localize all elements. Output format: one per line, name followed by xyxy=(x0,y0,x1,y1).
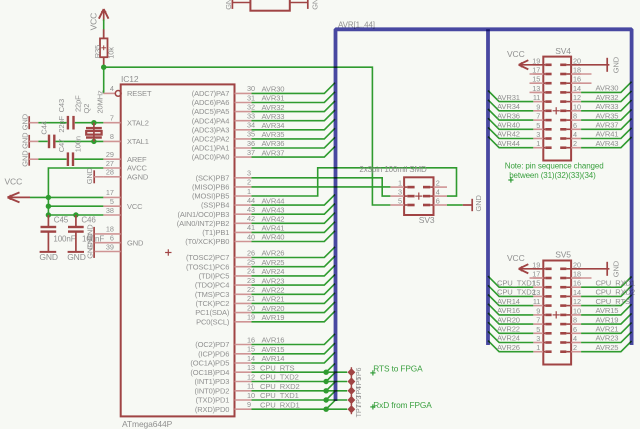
svg-text:AVR22: AVR22 xyxy=(262,286,285,295)
svg-text:CPU_TXD1: CPU_TXD1 xyxy=(497,278,536,287)
svg-text:4: 4 xyxy=(110,84,114,93)
testpoint TP6 xyxy=(348,367,356,377)
wire AVR41 xyxy=(252,222,336,233)
SV3 pin 1 xyxy=(390,179,414,188)
svg-text:7: 7 xyxy=(110,114,114,123)
label CPU_TXD1 at SV5 xyxy=(497,278,536,287)
label AVR33 at SV4 xyxy=(596,102,619,111)
wire AVR26 from bus xyxy=(488,341,533,352)
junction VCC pin5 xyxy=(46,204,51,209)
svg-text:GND: GND xyxy=(20,150,29,167)
svg-text:3: 3 xyxy=(247,169,251,178)
svg-text:(TXD)PD1: (TXD)PD1 xyxy=(196,396,230,405)
svg-text:AVR25: AVR25 xyxy=(262,258,285,267)
svg-text:(ADC6)PA6: (ADC6)PA6 xyxy=(192,98,230,107)
junction RESET at R35 xyxy=(101,65,106,70)
IC12 pin name (TXD)PD1 xyxy=(196,396,230,405)
SV5 pin 17 stub wire xyxy=(530,277,544,279)
SV5 pin 20 xyxy=(560,260,581,269)
wire AVR36 from bus xyxy=(488,109,533,120)
svg-text:(INT1)PD3: (INT1)PD3 xyxy=(195,377,230,386)
label AVR21 xyxy=(262,295,285,304)
IC12 pin 10 lead xyxy=(235,391,255,400)
IC12 pin name AVCC xyxy=(127,164,148,173)
svg-text:14: 14 xyxy=(247,354,255,363)
svg-text:AVR21: AVR21 xyxy=(596,325,619,334)
wire AVR23 to right bus xyxy=(581,332,632,343)
svg-text:(AIN1/OC0)PB3: (AIN1/OC0)PB3 xyxy=(178,210,230,219)
SV5 pin 17 xyxy=(532,270,551,279)
wire RESET net (R35 to IC and to SV3 pin5) xyxy=(104,67,391,205)
svg-text:AVR20: AVR20 xyxy=(262,304,285,313)
wire AVR26 xyxy=(252,247,336,258)
svg-text:GND: GND xyxy=(311,0,320,10)
value 20MHz of Q2 xyxy=(95,90,104,114)
wire VCC net to pin 17 xyxy=(30,196,103,198)
IC12 pin 18 lead xyxy=(95,225,121,234)
label AVR15 at SV5 xyxy=(596,306,619,315)
IC12 pin name (ADC5)PA5 xyxy=(192,107,230,116)
junction CPU_TXD2 xyxy=(323,379,328,384)
wire CPU_TXD1 from bus xyxy=(488,276,533,287)
svg-text:between (31)(32)(33)(34): between (31)(32)(33)(34) xyxy=(509,171,596,180)
label AVR34 at SV4 xyxy=(497,102,520,111)
wire AVR22 xyxy=(252,284,336,295)
svg-text:(RXD)PD0: (RXD)PD0 xyxy=(195,405,229,414)
svg-text:Note: pin sequence changed: Note: pin sequence changed xyxy=(505,162,604,171)
svg-text:4: 4 xyxy=(436,188,440,197)
IC12 pin name AGND xyxy=(127,172,149,181)
SV4 pin 11 xyxy=(533,93,552,102)
IC12 pin 14 lead xyxy=(235,354,255,363)
svg-text:(MISO)PB6: (MISO)PB6 xyxy=(192,183,229,192)
svg-text:AVR36: AVR36 xyxy=(262,139,285,148)
wire CPU_TXD2 xyxy=(252,373,348,382)
ground for C47 xyxy=(20,150,38,167)
svg-text:7: 7 xyxy=(536,316,540,325)
svg-text:CPU_TXD1: CPU_TXD1 xyxy=(260,391,299,400)
SV5 pin 8 xyxy=(560,316,581,325)
wire AVCC net xyxy=(48,168,103,197)
wire MISO net (IC pin2 to SV3 pin1) xyxy=(252,186,391,188)
label AVR20 at SV5 xyxy=(497,315,520,324)
svg-text:16: 16 xyxy=(573,75,581,84)
wire AVR14 xyxy=(252,352,336,363)
svg-text:(TOSC2)PC7: (TOSC2)PC7 xyxy=(186,253,229,262)
label AVR25 at SV5 xyxy=(596,343,619,352)
svg-text:18: 18 xyxy=(573,270,581,279)
wire AVR42 from bus xyxy=(488,127,533,138)
label C44 xyxy=(40,121,49,134)
annotation RTS to FPGA xyxy=(370,364,423,376)
IC12 pin 15 lead xyxy=(235,345,255,354)
label AVR32 at SV4 xyxy=(596,93,619,102)
svg-text:1: 1 xyxy=(536,343,540,352)
svg-text:(TCK)PC2: (TCK)PC2 xyxy=(196,299,230,308)
ground for C44 xyxy=(20,132,38,149)
svg-text:RESET: RESET xyxy=(127,89,152,98)
wire XTAL2 net xyxy=(38,122,103,124)
label SV5 xyxy=(555,250,571,260)
IC12 pin 13 lead xyxy=(235,363,255,372)
svg-text:AVR31: AVR31 xyxy=(497,93,520,102)
svg-text:AVR26: AVR26 xyxy=(497,343,520,352)
svg-text:SV4: SV4 xyxy=(555,46,571,56)
bus AVR[1..44] main U (left vertical, top horizontal, right vertical) xyxy=(336,29,632,401)
svg-text:AVR16: AVR16 xyxy=(262,336,285,345)
IC12 pin 36 lead xyxy=(235,139,255,148)
SV4 pin 17 stub wire xyxy=(530,73,544,75)
svg-text:VCC: VCC xyxy=(507,49,525,59)
IC12 pin 40 lead xyxy=(235,232,255,241)
ground IC GND pins 18/6/39 xyxy=(85,224,94,259)
svg-text:19: 19 xyxy=(247,313,255,322)
label AVR36 at SV4 xyxy=(497,111,520,120)
IC12 pin 8 lead xyxy=(103,132,120,141)
svg-text:(AIN0/INT2)PB2: (AIN0/INT2)PB2 xyxy=(177,219,230,228)
IC12 pin 20 lead xyxy=(235,303,255,312)
SV5 pin 10 xyxy=(560,306,581,315)
svg-text:AVR25: AVR25 xyxy=(596,343,619,352)
wire AVR34 from bus xyxy=(488,100,533,111)
label IC12 xyxy=(121,74,139,84)
svg-text:3: 3 xyxy=(536,130,540,139)
label AVR44 xyxy=(262,196,285,205)
note text about pin sequence xyxy=(505,162,604,183)
svg-text:11: 11 xyxy=(533,93,540,102)
svg-text:10: 10 xyxy=(247,391,255,400)
SV5 pin 4 xyxy=(560,334,581,343)
testpoint TP3 xyxy=(348,395,356,405)
svg-text:11: 11 xyxy=(533,297,540,306)
IC12 pin name VCC xyxy=(127,202,143,211)
IC12 pin 28 lead xyxy=(103,168,120,177)
wire AVR44 xyxy=(252,194,336,205)
svg-text:2: 2 xyxy=(573,343,577,352)
svg-text:AVR22: AVR22 xyxy=(497,325,520,334)
svg-text:38: 38 xyxy=(106,206,114,215)
svg-text:VCC: VCC xyxy=(127,202,143,211)
wire AVR37 xyxy=(252,146,336,157)
svg-text:C46: C46 xyxy=(81,215,96,224)
SV4 origin cross xyxy=(553,107,560,114)
IC12 pin name (TCK)PC2 xyxy=(196,299,230,308)
svg-text:VCC: VCC xyxy=(5,177,23,187)
IC12 pin name (AIN1/OC0)PB3 xyxy=(178,210,230,219)
label CPU_RXD1 xyxy=(260,400,300,409)
svg-text:ATmega644P: ATmega644P xyxy=(122,419,173,429)
svg-text:4: 4 xyxy=(573,130,577,139)
SV3 pin 6 xyxy=(423,196,447,205)
IC12 pin name (ADC2)PA2 xyxy=(192,135,230,144)
label CPU_TXD2 at SV5 xyxy=(497,288,536,297)
svg-text:20: 20 xyxy=(247,303,255,312)
svg-text:TP7: TP7 xyxy=(354,404,363,417)
svg-text:GND: GND xyxy=(127,238,144,247)
svg-text:20MHz: 20MHz xyxy=(95,90,104,114)
svg-text:GND: GND xyxy=(85,242,94,259)
wire AVR42 xyxy=(252,213,336,224)
label AVR26 at SV5 xyxy=(497,343,520,352)
svg-text:GND: GND xyxy=(20,132,29,149)
capacitor C43 22pF xyxy=(68,116,74,130)
label AVR31 at SV4 xyxy=(497,93,520,102)
junction CPU_RXD2 xyxy=(323,388,328,393)
svg-text:22: 22 xyxy=(247,285,255,294)
svg-text:28: 28 xyxy=(106,168,114,177)
label AVR33 xyxy=(262,112,285,121)
IC12 pin 35 lead xyxy=(235,130,255,139)
IC12 pin name (ADC6)PA6 xyxy=(192,98,230,107)
SV3 origin cross xyxy=(415,193,422,200)
SV4 pin 3 xyxy=(533,130,551,139)
svg-text:AVR33: AVR33 xyxy=(262,112,285,121)
svg-text:16: 16 xyxy=(573,279,581,288)
svg-text:SV3: SV3 xyxy=(419,215,435,225)
svg-text:CPU_TXD2: CPU_TXD2 xyxy=(497,288,536,297)
connector SV4 body xyxy=(543,57,571,161)
label SV4 xyxy=(555,46,571,56)
wire VCC to R35 xyxy=(103,20,105,39)
wire AVR14 from bus xyxy=(488,295,533,306)
capacitor C44 22pF xyxy=(49,135,54,149)
label AVR23 at SV5 xyxy=(596,334,619,343)
ground below C46 xyxy=(67,252,86,262)
svg-text:AVR44: AVR44 xyxy=(262,196,285,205)
wire AVR20 from bus xyxy=(488,313,533,324)
svg-text:AVR20: AVR20 xyxy=(497,315,520,324)
svg-text:AVR43: AVR43 xyxy=(262,205,285,214)
IC12 pin name (INT1)PD3 xyxy=(195,377,230,386)
SV5 pin 9 xyxy=(533,306,551,315)
label AVR35 at SV4 xyxy=(596,111,619,120)
IC12 pin 41 lead xyxy=(235,223,255,232)
junction VCC at C46 xyxy=(73,212,78,217)
SV3 pin 5 xyxy=(390,196,414,205)
label AVR41 xyxy=(262,224,285,233)
label TP7 xyxy=(354,404,363,417)
IC12 pin 30 lead xyxy=(235,84,255,93)
svg-text:10: 10 xyxy=(573,102,581,111)
testpoint TP4 xyxy=(348,386,356,396)
wire AVR19 xyxy=(252,311,336,322)
junction XTAL1 at crystal xyxy=(91,139,96,144)
svg-text:9: 9 xyxy=(536,102,540,111)
wire AVR37 to right bus xyxy=(581,119,632,130)
svg-text:18: 18 xyxy=(573,66,581,75)
IC12 pin name (ICP)PD6 xyxy=(198,349,229,358)
junction VCC pin17 xyxy=(46,195,51,200)
IC12 pin name (OC1B)PD4 xyxy=(190,368,229,377)
svg-text:(TDO)PC4: (TDO)PC4 xyxy=(195,281,229,290)
SV4 pin 6 xyxy=(560,121,581,130)
label Q2 xyxy=(82,104,91,114)
junction CPU_RTS xyxy=(323,370,328,375)
label CPU_RXD2 at SV5 xyxy=(596,288,636,297)
IC12 pin 4 lead xyxy=(103,84,121,96)
wire AVR30 xyxy=(252,83,336,94)
svg-text:15: 15 xyxy=(532,75,540,84)
svg-text:AVR37: AVR37 xyxy=(596,121,619,130)
IC12 pin 42 lead xyxy=(235,214,255,223)
label AVR14 at SV5 xyxy=(497,297,520,306)
svg-text:CPU_TXD2: CPU_TXD2 xyxy=(260,373,299,382)
svg-text:CPU_RXD1: CPU_RXD1 xyxy=(596,278,636,287)
IC12 pin 39 lead xyxy=(95,242,121,251)
svg-text:GND: GND xyxy=(612,260,621,277)
label SV3 xyxy=(419,215,435,225)
svg-text:41: 41 xyxy=(247,223,255,232)
IC12 pin 43 lead xyxy=(235,205,255,214)
wire AVR35 to right bus xyxy=(581,109,632,120)
svg-text:GND: GND xyxy=(612,56,621,73)
label AVR19 at SV5 xyxy=(596,315,619,324)
wire AVR16 xyxy=(252,334,336,345)
label AVR43 at SV4 xyxy=(596,139,619,148)
IC12 pin name (TOSC1)PC6 xyxy=(186,262,229,271)
wire AVR25 xyxy=(252,256,336,267)
svg-text:29: 29 xyxy=(106,150,114,159)
label AVR14 xyxy=(262,354,285,363)
svg-text:2: 2 xyxy=(573,139,577,148)
svg-text:16: 16 xyxy=(247,335,255,344)
IC12 pin name (ADC0)PA0 xyxy=(192,153,230,162)
SV4 pin 15 xyxy=(532,75,551,84)
SV5 pin 16 xyxy=(560,279,581,288)
label AVR19 xyxy=(262,313,285,322)
IC12 pin 9 lead xyxy=(235,400,252,409)
svg-text:(ADC4)PA4: (ADC4)PA4 xyxy=(192,116,230,125)
svg-text:(ADC5)PA5: (ADC5)PA5 xyxy=(192,107,230,116)
IC12 pin 38 lead xyxy=(103,206,120,215)
junction CPU_RXD1 xyxy=(323,407,328,412)
ground below C45 xyxy=(39,252,58,262)
svg-text:(OC1A)PD5: (OC1A)PD5 xyxy=(190,359,229,368)
wire AVR15 to right bus xyxy=(581,304,632,315)
SV4 pin 19 xyxy=(532,56,551,65)
IC12 pin 7 lead xyxy=(103,114,120,123)
svg-text:2: 2 xyxy=(247,178,251,187)
svg-text:(OC2)PD7: (OC2)PD7 xyxy=(195,340,229,349)
label AVR16 xyxy=(262,336,285,345)
svg-text:6: 6 xyxy=(573,121,577,130)
wire CPU_RXD2 xyxy=(252,382,348,391)
svg-text:3: 3 xyxy=(536,334,540,343)
label CPU_RXD2 xyxy=(260,382,300,391)
IC12 pin 31 lead xyxy=(235,93,255,102)
svg-text:12: 12 xyxy=(247,372,255,381)
svg-text:31: 31 xyxy=(247,93,255,102)
wire AVR40 from bus xyxy=(488,118,533,129)
SV5 pin 5 xyxy=(533,325,551,334)
svg-text:36: 36 xyxy=(247,139,255,148)
IC12 pin name (OC2)PD7 xyxy=(195,340,229,349)
SV4 pin 12 xyxy=(560,93,581,102)
svg-text:5: 5 xyxy=(110,197,114,206)
wire AVR20 xyxy=(252,302,336,313)
wire AVR24 xyxy=(252,265,336,276)
wire AVR15 xyxy=(252,343,336,354)
microcontroller IC12 ATmega644P body xyxy=(121,84,235,416)
svg-text:AVR24: AVR24 xyxy=(497,334,520,343)
value 22pF of C43 xyxy=(74,95,83,112)
wire CPU_RTS xyxy=(252,363,348,372)
svg-text:10: 10 xyxy=(573,306,581,315)
svg-text:(T1)PB1: (T1)PB1 xyxy=(202,228,229,237)
value 100n of C47 xyxy=(74,136,83,152)
svg-text:PC0(SCL): PC0(SCL) xyxy=(196,317,230,326)
IC12 origin cross xyxy=(165,249,171,255)
supply VCC at SV5 xyxy=(507,253,543,274)
value ATmega644P xyxy=(122,419,173,429)
svg-text:C47: C47 xyxy=(57,139,66,152)
IC12 pin 34 lead xyxy=(235,121,255,130)
IC12 pin 19 lead xyxy=(235,313,255,322)
SV5 pin 7 xyxy=(533,316,551,325)
label CPU_RXD1 at SV5 xyxy=(596,278,636,287)
svg-text:(T0/XCK)PB0: (T0/XCK)PB0 xyxy=(185,237,229,246)
svg-text:AVR33: AVR33 xyxy=(596,102,619,111)
label TP6 xyxy=(354,367,363,380)
label AVR25 xyxy=(262,258,285,267)
value 100nF of C45 xyxy=(53,234,75,243)
IC12 pin name (OC1A)PD5 xyxy=(190,359,229,368)
SV5 pin 15 xyxy=(532,279,551,288)
IC12 pin 44 lead xyxy=(235,196,255,205)
IC12 pin 22 lead xyxy=(235,285,255,294)
label AVR21 at SV5 xyxy=(596,325,619,334)
svg-text:10k: 10k xyxy=(107,47,116,59)
svg-text:AVR24: AVR24 xyxy=(262,267,285,276)
IC12 pin name (MISO)PB6 xyxy=(192,183,229,192)
SV5 pin 18 stub wire xyxy=(571,277,591,279)
svg-text:(SS)PB4: (SS)PB4 xyxy=(201,201,229,210)
IC12 pin name (ADC1)PA1 xyxy=(192,144,230,153)
svg-text:22pF: 22pF xyxy=(57,115,66,132)
label TP3 xyxy=(354,395,363,408)
SV5 pin 6 xyxy=(560,325,581,334)
wire to right GND xyxy=(290,2,308,4)
svg-text:6: 6 xyxy=(436,196,440,205)
SV3 pin 4 xyxy=(423,188,447,197)
IC12 pin name PC1(SDA) xyxy=(195,308,230,317)
SV5 origin cross xyxy=(553,311,560,318)
IC12 pin name (SS)PB4 xyxy=(201,201,229,210)
svg-text:AVR14: AVR14 xyxy=(262,354,285,363)
svg-text:GND: GND xyxy=(474,194,483,211)
label CPU_RTS at SV5 xyxy=(596,297,631,306)
svg-text:GND: GND xyxy=(20,113,29,130)
IC12 pin 11 lead xyxy=(235,382,255,391)
svg-text:30: 30 xyxy=(247,84,255,93)
ground left of top resistor xyxy=(224,0,233,10)
svg-text:GND: GND xyxy=(224,0,233,10)
svg-text:42: 42 xyxy=(247,214,255,223)
svg-text:XTAL1: XTAL1 xyxy=(127,137,149,146)
svg-text:PC1(SDA): PC1(SDA) xyxy=(195,308,230,317)
svg-text:37: 37 xyxy=(247,148,255,157)
IC12 pin name AREF xyxy=(127,155,147,164)
svg-text:(ADC0)PA0: (ADC0)PA0 xyxy=(192,153,230,162)
svg-text:GND: GND xyxy=(67,252,86,262)
svg-text:4: 4 xyxy=(573,334,577,343)
wire AVR33 to right bus xyxy=(581,100,632,111)
IC12 pin 27 lead xyxy=(103,159,120,168)
label AVR42 at SV4 xyxy=(497,130,520,139)
svg-text:AVR40: AVR40 xyxy=(262,233,285,242)
svg-text:13: 13 xyxy=(247,363,255,372)
annotation RxD from FPGA xyxy=(370,400,432,410)
